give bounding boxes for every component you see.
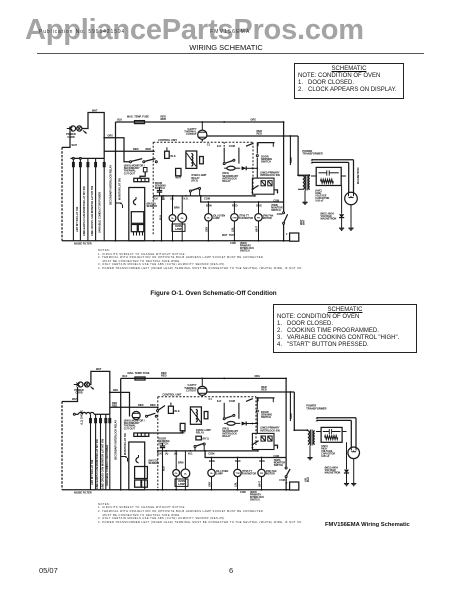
svg-text:RED: RED [161,117,167,121]
wire chassis left vertical [61,147,63,240]
node bus2u 166 [165,450,167,452]
svg-text:RED: RED [112,405,117,408]
node bus 163 [162,195,164,197]
diode D4 on monitor line [121,456,128,462]
svg-text:LINE EARTH CAN MONITOR LAT MT: LINE EARTH CAN MONITOR LAT MT SW [82,186,86,236]
node tx top 2 [293,429,295,431]
label primary interlock bottom 2 [240,491,264,502]
svg-text:LINE CROSS CAN MONITOR LAT MT: LINE CROSS CAN MONITOR LAT MT SW [100,438,104,489]
label TTM motor 2 [242,470,257,476]
lamp OL3 [205,214,212,221]
label WHT left 2 [72,398,78,401]
resistor R4 [180,423,186,434]
thermostat cavity thermal cutout [184,128,207,139]
relay K2 block [138,225,144,232]
wire GRN stub [289,136,291,165]
svg-text:OL: OL [207,217,211,219]
power cord plug P1 [66,126,82,139]
svg-text:COM: COM [277,213,283,216]
node tx top [297,174,299,176]
footer page number [229,566,233,575]
net label secondary interlock [110,165,113,205]
node bus 185.9 [185,195,187,197]
svg-text:RED: RED [235,459,241,463]
control unit dashed outline [153,142,253,235]
net label ART MT SW 2 [90,459,94,485]
svg-text:SWITCH: SWITCH [271,209,281,212]
svg-text:SWITCH: SWITCH [261,161,271,164]
label FM motor [263,214,274,220]
label RED 23 [261,385,267,392]
lamp OL1 [169,215,176,222]
svg-text:FAN MOTOR: FAN MOTOR [242,473,257,476]
svg-text:MAG. TEMP. FUSE: MAG. TEMP. FUSE [127,116,149,119]
wire motor stem 2 [233,202,235,241]
label WHT left [72,144,78,147]
label door sensing switch 2 [261,156,272,164]
relay RY3 oven lamp relay [190,407,208,424]
connector pin 2 [80,163,82,167]
thermostat cavity thermal cutout 2 [184,384,207,395]
wire rail L2 [202,136,298,142]
svg-text:MAGNETRON: MAGNETRON [325,472,341,475]
net label ART MT SW [75,206,79,232]
lamp OL4 [173,470,180,477]
label CONTROL UNIT 2 [163,393,182,396]
svg-text:OL: OL [184,474,188,476]
svg-text:BRN: BRN [178,461,184,464]
ground tx [302,202,307,204]
node rail bottom 172.5 [172,240,174,242]
label primary interlock switch [260,171,280,177]
svg-text:BLK: BLK [175,410,180,413]
label MAG TEMP FUSE [127,116,149,119]
svg-text:RED: RED [232,204,238,208]
wire filament 1 [311,159,354,193]
svg-text:COM: COM [240,491,246,494]
resistor R8 [261,436,265,441]
label BLK 2 [0,0,1,1]
label RED 21 [138,403,144,407]
svg-text:COM: COM [204,197,210,201]
wire lamp stem 2 [181,196,183,241]
wire bus lower 2 [205,451,286,458]
svg-text:LBL: LBL [230,227,234,232]
label COM dss [273,200,279,203]
wire ILO drop [223,148,225,163]
svg-text:CUT-OUT: CUT-OUT [124,172,136,175]
node bus2 258.5 [258,201,260,203]
svg-text:RED: RED [138,403,144,407]
wire COM drop [238,148,240,164]
touch control panel box [129,188,145,241]
svg-text:ART MT SW LAT SW: ART MT SW LAT SW [75,206,79,232]
wire to cavity TC 2 [201,378,203,385]
resistor block R1 [143,168,147,172]
svg-text:LINE CROSS CAN MONITOR LAT MT: LINE CROSS CAN MONITOR LAT MT SW [90,185,94,236]
caption figure O-1 [0,290,427,297]
label WHT top [92,110,98,113]
net label LINE CROSS [90,185,94,236]
svg-text:2: 2 [286,482,288,485]
node bus 153.8 [153,195,155,197]
label oven lamp relay 2 [196,429,211,435]
pcb pins [134,232,143,236]
label ORG [108,135,114,138]
label oven lamp pair 2 [175,479,188,486]
svg-text:WHT: WHT [92,110,98,113]
wire lamp stem 21 [175,451,177,490]
wire top rail L1 [116,121,284,123]
resistor R7 [268,181,272,186]
node bus2u 205.1 [204,450,206,452]
transformer T2 secondary [313,431,314,445]
svg-text:OL: OL [210,473,214,475]
lamp OL5 [181,469,190,478]
svg-text:BLK: BLK [162,466,165,471]
terminal E3 [73,413,75,415]
node monitor bottom [283,240,285,242]
svg-text:OL: OL [171,218,175,220]
label RED 2 [146,147,152,151]
wire control-board line 2-5 [109,414,111,490]
svg-text:RED: RED [146,147,152,151]
label wire colors row2 [204,226,258,232]
svg-text:GRN: GRN [290,413,293,419]
svg-text:RED: RED [161,374,167,378]
wire noise filter line [71,157,105,159]
wire tx primary leads [298,176,303,190]
connector CN2 [134,433,149,436]
svg-text:LBL: LBL [234,482,238,487]
diode D5 [242,422,259,426]
svg-text:0.95 uF: 0.95 uF [321,455,330,458]
capacitor C4 hook [136,455,139,463]
transformer T2 primary [308,431,310,445]
node rail bottom 2-162.5 [162,489,164,491]
svg-text:SWITCH: SWITCH [158,443,168,446]
resistor R5 bleed [325,436,338,440]
label oven lamp relay [191,174,206,182]
svg-text:LINE EARTH CAN MONITOR LAT MT: LINE EARTH CAN MONITOR LAT MT SW [95,439,99,489]
wire plug to top (WHT) [82,113,105,159]
wire mid vertical 2 [162,451,164,490]
magnetron MG2 [348,447,360,459]
svg-text:TRANSFORMER: TRANSFORMER [302,152,322,156]
wire chassis left vertical 2 [61,402,63,490]
svg-text:LAMP: LAMP [175,228,182,231]
switch RK1 contact 2 [223,414,235,419]
node bus2u 190.4 [190,450,192,452]
wire control-board line 2-2 [95,414,97,490]
label OL motor 2 [216,470,229,476]
node red row left [115,150,117,152]
node bus2u 176 [175,450,177,452]
svg-text:TEST: TEST [229,234,236,237]
switch SW6 monitor [285,467,290,478]
svg-text:BRN: BRN [206,204,212,208]
svg-text:LAMP: LAMP [216,473,223,476]
diode D2 on monitor line [116,202,123,208]
wire plug to top 2 [90,371,110,414]
svg-text:SENSOR: SENSOR [147,205,158,208]
svg-text:C1: C1 [207,142,211,146]
node rail A [201,121,203,123]
svg-text:SENSOR: SENSOR [149,462,160,465]
svg-text:SWITCH: SWITCH [274,464,284,467]
wire GRN stub 2 [289,392,291,421]
node rail bottom 2-211.5 [211,489,213,491]
label BRN [174,206,180,209]
node rail bottom 208.4 [208,240,210,242]
node rail bottom 2-185.4 [185,489,187,491]
connector pin 2-3 [100,419,102,423]
label GRN [290,157,293,163]
switch arm lower 2 [252,441,279,450]
wire red row 2 [110,406,158,408]
svg-text:CONTROL UNIT: CONTROL UNIT [163,393,182,396]
wire control-board line 2-1 [90,414,92,490]
switch latch top 2 [246,398,275,403]
node bus2l 237.5 [237,457,239,459]
node red row left 2 [120,406,122,408]
node monitor top 2 [285,378,287,380]
svg-text:INTERLOCK SW.: INTERLOCK SW. [260,174,280,177]
capacitor HVC symbol 2 [323,429,341,434]
label power transformer [302,149,322,156]
transformer T1 secondary [308,176,309,189]
svg-text:(RY2): (RY2) [191,179,198,182]
motor TTM turntable 2 [234,469,241,476]
diode D3 [242,166,259,170]
connector pin 3 [87,163,89,167]
ground magnetron 2 [351,484,356,486]
pcb module box [131,212,144,224]
label BRN 2 [178,461,184,464]
wire control-board line 1 [72,158,74,240]
label magnetron [321,212,337,220]
chassis box 2 [286,482,299,490]
wire filament 2 [311,161,349,192]
svg-text:MAGNETRON: MAGNETRON [357,167,360,184]
capacitor C5 [160,443,165,451]
svg-text:ART MT SW LAT SW: ART MT SW LAT SW [90,459,94,485]
label ORG 21 [113,389,119,392]
label C1 2 [209,397,213,401]
node red row right [153,150,155,152]
label monitor thermal cutout 2 [124,420,145,431]
contact dss [256,155,258,157]
svg-text:CONTROL UNIT: CONTROL UNIT [158,139,177,142]
net label monitor sw 2 [124,433,127,455]
label BLK rail 2 [122,375,127,378]
svg-text:BLK: BLK [157,452,162,455]
wire control-board line 4 [95,158,97,240]
relay coil RK1 [224,166,240,170]
label monitor switch 2 [274,459,286,467]
wire bus drop 163 [162,196,164,200]
connector pin 2-1 [90,419,92,423]
node rail bottom 2-286.1 [285,489,287,491]
transformer T1 primary [303,176,305,190]
wire control-board line 2-4 [105,414,107,490]
wire bottom rail [62,240,290,242]
switch SW3 monitor [283,212,288,224]
lamp OL6 [208,469,215,476]
wire ILO drop 2 [223,403,225,418]
svg-text:ORG: ORG [251,119,257,122]
svg-text:SWITCH: SWITCH [261,416,271,419]
label noise filter 2 [74,491,92,495]
page title [0,43,452,52]
wire lamp stem 1 [172,196,174,241]
svg-text:SECONDARY INTERLOCK RELAY: SECONDARY INTERLOCK RELAY [110,165,113,205]
node rail bottom 2-120.7 [120,489,122,491]
net label VARIABLE CONDUCTOR [98,192,102,233]
wire motor stem 22 [237,458,239,490]
svg-text:RED: RED [150,403,156,407]
motor TTM turntable [231,214,238,221]
resistor R9 [268,436,272,441]
label WHT rotated [300,219,306,225]
wire COM drop 2 [238,403,240,419]
caption FMV156EMA wiring schematic [325,522,410,528]
svg-text:WHT: WHT [258,481,262,487]
connector pin 2-2 [95,419,97,423]
watermark AppliancePartsPros.com [25,14,364,47]
label WHT top 2 [96,368,102,371]
node bus 200.7 [200,195,202,197]
svg-text:LAMP: LAMP [178,483,185,486]
chassis box [286,233,299,241]
label CONTROL UNIT [158,139,177,142]
svg-text:SECONDARY INTERLOCK RELAY: SECONDARY INTERLOCK RELAY [115,420,118,460]
svg-text:ORG: ORG [259,459,265,463]
svg-text:FM: FM [260,473,263,475]
svg-text:VARIABLE CONDUCTOR POWER: VARIABLE CONDUCTOR POWER [105,445,109,486]
svg-text:(A): (A) [165,452,169,455]
svg-text:BLK: BLK [171,155,176,158]
terminal E1 [72,157,74,159]
node rail bottom 153.8 [153,240,155,242]
svg-text:COM: COM [279,479,285,482]
svg-text:RELAY: RELAY [196,432,205,435]
node bus2l 211.5 [211,457,213,459]
relay coil RK2 [224,422,240,426]
wire monitor vertical [283,122,285,241]
svg-text:MONITOR LAT SW: MONITOR LAT SW [124,433,127,455]
svg-text:WHT: WHT [72,398,78,401]
label magnetron rotated [357,167,360,184]
node rail bottom 283.6 [283,240,285,242]
ground tx 2 [307,458,312,460]
svg-text:ORG: ORG [113,389,119,392]
svg-text:(A): (A) [162,197,166,200]
wire magnetron ground stem [350,205,352,228]
contact dss 2 [256,410,258,412]
label COM [229,144,235,148]
wire transformer feed 2 [293,392,295,430]
magnetron MG1 [345,192,358,205]
connector pin 2-5 [109,419,111,423]
svg-text:CORD: CORD [67,136,75,139]
node bus2l 261.5 [261,457,263,459]
svg-text:BRN: BRN [209,459,215,463]
connector CN1 [134,178,149,181]
svg-text:RED: RED [257,132,263,136]
wire BLK vertical [115,122,117,241]
wire diode stem [341,186,343,214]
svg-text:WHT: WHT [72,144,78,147]
label COM bus 2 [208,452,214,456]
touch control panel box 2 [129,442,145,490]
capacitor C3 [157,188,162,197]
label BLK rail [117,119,122,122]
label RED top [161,115,167,122]
label sensor 2 [149,460,160,466]
svg-text:COM: COM [229,144,235,148]
node red row right 2 [157,406,159,408]
header model number [210,29,251,35]
svg-text:RELAY: RELAY [222,435,231,438]
ground diode 2 [344,484,349,486]
label LBL rotated [305,477,311,482]
svg-text:COM: COM [208,452,214,456]
net label VARIABLE 2 [105,445,109,486]
node bus2 234.4 [234,201,236,203]
wire control-board line 5 [103,158,105,240]
label wire colors row 22 [208,481,262,487]
label ILO [217,144,221,148]
wire tx link [298,174,309,176]
wire motor stem 21 [211,458,213,490]
wire filament 22 [316,419,352,447]
label WHT TEST [222,234,236,237]
svg-text:RED: RED [133,147,139,151]
label RED 1 [133,147,139,151]
chassis ground arrow at plug 2 [91,387,95,390]
svg-text:BLU: BLU [307,477,310,482]
interlock block 2 [252,433,274,449]
fuse F2 [165,147,176,158]
hv capacitor box 2 [321,427,342,442]
node rail bottom 161.5 [161,240,163,242]
svg-text:FM: FM [257,217,260,219]
node rail2 A [290,135,292,137]
svg-text:WHT: WHT [255,226,259,232]
node rail B [223,121,225,123]
footer date [39,566,58,575]
svg-text:MONITOR LAT SW: MONITOR LAT SW [119,178,122,200]
transformer T2 core [310,430,312,446]
label bus codes 2 [157,452,193,455]
svg-text:ORG: ORG [255,375,261,378]
wire filament 21 [316,417,357,447]
svg-text:BLK: BLK [153,197,158,200]
wire diode stem 2 [346,442,348,469]
net label LINE EARTH 2 [95,439,99,489]
switch latch arm 2 [157,406,166,412]
wire bottom rail 2 [62,489,290,491]
wire transformer feed [297,136,299,175]
wire motor stem 1 [207,202,209,241]
node monitor bottom 2 [285,489,287,491]
label BLK rotated 2 [162,466,165,471]
svg-text:N.O.: N.O. [184,197,189,200]
wire tx ground stem [304,191,306,202]
svg-text:(RY1): (RY1) [203,437,209,440]
label ILO 2 [217,399,221,403]
